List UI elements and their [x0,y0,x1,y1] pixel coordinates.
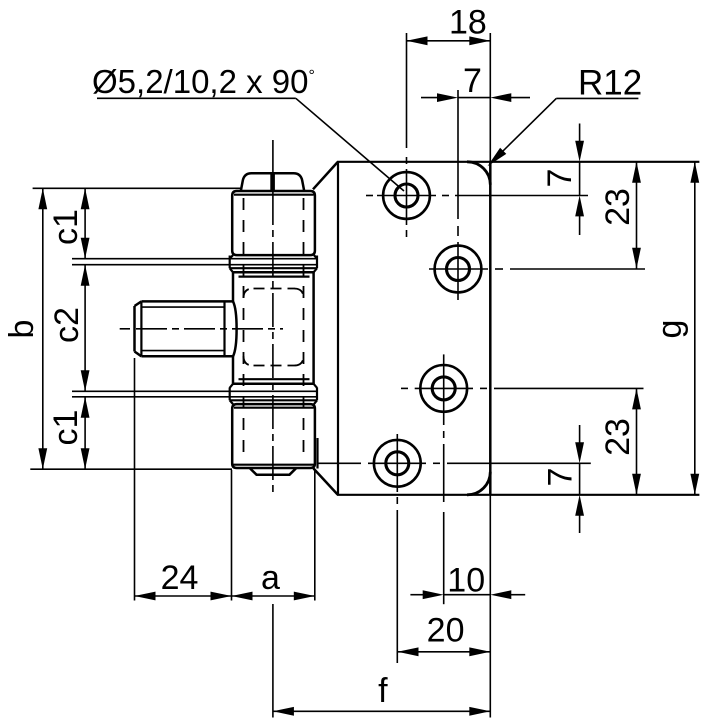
svg-text:R12: R12 [578,64,642,103]
hidden bore line left (dashed) [243,198,245,462]
lower ring right edge [316,388,318,401]
upper ring flare top-right [314,255,317,259]
hole H4 vertical centerline [396,434,398,492]
plate crease line at barrel [337,162,339,495]
dimension 7 top left tail [421,97,438,99]
bottom knuckle lower line [233,464,314,466]
R12 underline [556,97,638,99]
extension line from stud end down to 24 dim [134,358,136,601]
hole H1 horizontal centerline [377,195,436,197]
extension line barrel top [33,187,241,189]
barrel top cap dome [241,173,304,191]
hole H3 vertical centerline [443,354,445,425]
barrel top cap screw slot [270,173,275,190]
dimension line c1 bottom [84,397,86,469]
extension line c1/c2 upper pair line1 [72,258,317,260]
svg-text:c1: c1 [47,410,85,446]
R12 leader arrowhead [488,148,507,167]
dimension line 7 right-top [579,162,581,196]
dimension 7 right-top upper tail [579,124,581,142]
bottom knuckle chamfer line [234,407,314,409]
dimension line 10 [444,594,491,596]
lower ring flare top-left [230,384,233,388]
extension line c1/c2 upper pair line2 [72,264,317,266]
top knuckle chamfer line [234,194,314,196]
dimension line b [42,188,44,469]
upper ring right edge [316,256,318,269]
middle section right edge [312,272,315,384]
barrel bottom cap [250,468,296,474]
dimension line c1 top [84,188,86,258]
hole H3 centerline extension right to 23 dim [494,387,644,389]
extension line from barrel left edge down [231,470,233,601]
middle section left edge lower part [232,356,235,384]
R12 leader line [490,98,557,164]
svg-text:10: 10 [447,561,485,599]
top knuckle section outline [232,191,315,255]
dimension line 23 right-top [636,162,638,269]
extension line c2/c1 lower pair line1 [72,390,317,392]
middle section bottom chamfer line [239,378,310,380]
plate bottom edge + extension line to g dimension [337,494,699,496]
svg-text:7: 7 [463,62,482,100]
middle section top edge [233,271,314,274]
dimension 7 right-top lower tail [579,215,581,235]
plate bottom-left slanted transition to barrel [313,468,337,494]
svg-text:f: f [378,672,388,710]
hidden bore line right (dashed) [303,198,305,462]
svg-text:20: 20 [427,612,465,650]
hole H2 centerline extension right to 23 dim [510,268,645,270]
dimension line 7 right-bottom [579,463,581,495]
dimension line 20 [398,651,491,653]
svg-text:7: 7 [542,468,580,487]
hole H2 upper-right drill Ø5,2 [447,258,470,281]
extension line plate right edge down to f dim [489,495,491,718]
dimension line 24 [135,595,232,597]
hole H1 centerline extension right to 7 dim [455,195,588,197]
upper ring left edge [229,256,231,269]
stud thread minor line top [141,306,224,308]
upper ring flare bottom-right [314,268,317,272]
svg-text:a: a [261,559,280,597]
upper washer ring line [230,267,317,269]
stud weld collar bulge [233,301,237,356]
dimension 10 right tail [510,594,525,596]
dimension 10 left tail [410,594,423,596]
stud chamfer boundary [140,301,142,356]
stud axis centerline start dash [120,328,130,330]
hidden thread outline in middle section (dashed) [244,289,304,366]
extension line barrel axis down to f dim [272,604,274,718]
barrel axis centerline [272,140,274,497]
extension line from barrel right edge down [314,470,316,601]
stud thread minor line bottom [141,350,224,352]
bottom knuckle section outline [232,404,315,468]
plate right edge [489,162,492,495]
lower ring flare bottom-left [230,400,233,404]
countersink label underline [97,97,296,99]
countersink label leader line to hole H1 [296,98,404,191]
extension line c2/c1 lower pair line2 [72,396,317,398]
dimension line 23 right-bottom [636,388,638,494]
hole H4 centerline extension right to 7 dim [447,462,591,464]
hole H1 top-left countersink Ø10,2 [383,172,430,219]
plate edge sliver right of bottom knuckle [316,438,318,469]
hole H4 horizontal centerline [368,462,426,464]
svg-text:c2: c2 [48,307,86,343]
svg-text:c1: c1 [47,209,85,245]
plate rounded corner bottom-right [467,472,490,495]
dimension line a [232,595,315,597]
middle section left edge upper part [232,272,235,302]
svg-text:23: 23 [599,188,637,226]
hole H2 upper-right countersink Ø10,2 [435,246,482,293]
stud chamfer top [135,301,142,306]
extension line from hole H1 up to 18 dim [406,33,408,148]
stud chamfer bottom [135,352,142,357]
hole H3 centerline extension down to 10 dim [443,512,445,604]
lower washer ring line [230,399,317,401]
svg-text:7: 7 [541,169,579,188]
hole H2 vertical extension up to 7 dim [457,90,459,219]
svg-text:24: 24 [161,559,199,597]
dimension 7 top right tail [510,97,530,99]
dimension line c2 [84,265,86,392]
hole H3 lower-right drill Ø5,2 [432,377,455,400]
svg-text:b: b [3,320,41,339]
upper ring flare bottom-left [230,268,233,272]
stud runout boundary [223,301,225,356]
hole H4 centerline extension down to 20 dim [396,510,398,663]
stud axis centerline [136,328,283,330]
dimension line 18 [407,40,491,42]
hole H4 bottom-left countersink Ø10,2 [374,440,421,487]
hole H3 horizontal centerline [415,387,473,389]
plate top edge + extension line to g dimension [337,161,699,163]
dimension line 7 top [458,97,490,99]
svg-text:g: g [651,320,689,339]
svg-text:Ø5,2/10,2 x 90°: Ø5,2/10,2 x 90° [92,63,315,100]
lower ring left edge [229,388,231,401]
extension line barrel bottom [30,468,232,470]
lower ring flare bottom-right [314,400,317,404]
hole H4 bottom-left drill Ø5,2 [386,452,409,475]
upper ring flare top-left [230,255,233,259]
middle section bottom edge [233,383,314,386]
svg-text:18: 18 [449,4,487,42]
dimension line g [694,162,696,495]
dimension line f [273,710,490,712]
dimension 7 right-bottom upper tail [579,425,581,443]
hole H1 vertical centerline [406,157,408,164]
stud end face [133,306,136,352]
svg-text:23: 23 [599,418,637,456]
hole H2 horizontal centerline [429,268,488,270]
extension line plate right edge up to 18 dim [489,33,491,162]
hole H3 lower-right countersink Ø10,2 [420,365,467,412]
lower ring flare top-right [314,384,317,388]
plate rounded corner top-right R12 [467,162,490,185]
stud top edge [141,300,233,303]
dimension 7 right-bottom lower tail [579,515,581,533]
hole H1 top-left drill Ø5,2 [395,184,418,207]
plate top-left slanted transition to barrel [313,162,338,189]
middle section top chamfer line [239,276,310,278]
hole H4 horizontal centerline left segment [317,462,361,464]
hole H3 centerline extension down [443,444,445,502]
stud bottom edge [141,355,233,358]
